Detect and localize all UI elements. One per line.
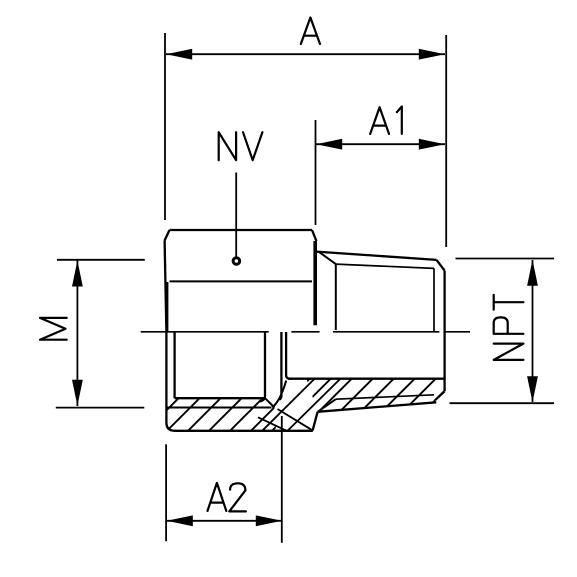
dimension A1 extension line left: [315, 120, 317, 225]
dimension A1 arrow right: [419, 139, 445, 150]
hex body left edge: [165, 241, 175, 431]
groove edge line 1: [262, 379, 314, 431]
male thread root top: [336, 264, 434, 268]
dimension NPT arrow bottom: [527, 376, 538, 402]
dimension M text: [40, 318, 67, 340]
dimension A line: [166, 53, 445, 55]
male right face: [443, 271, 445, 392]
hex body top-right chamfer: [312, 230, 316, 241]
dimension A2 extension line left: [165, 444, 167, 541]
groove edge line 2: [287, 379, 340, 431]
small bore step vertical: [286, 332, 290, 379]
dimension M arrow top: [72, 261, 83, 287]
female bore end: [259, 332, 265, 402]
centerline: [141, 331, 470, 333]
male thread crest top: [316, 252, 436, 260]
dimension A2 arrow left: [167, 515, 193, 526]
dimension NPT text: [494, 295, 524, 360]
groove edge line 3: [258, 417, 287, 431]
groove edge line 4: [278, 409, 313, 430]
dimension M extension line top: [57, 259, 145, 261]
dimension A arrow right: [419, 49, 445, 60]
NV leader dot: [233, 258, 240, 265]
hex body right face: [313, 241, 317, 325]
dimension A1 text: [370, 107, 402, 134]
hex body top-left chamfer: [165, 230, 170, 241]
dimension A1 line: [316, 143, 445, 145]
male thread vanish bottom: [318, 399, 336, 411]
dimension A2 line: [167, 520, 282, 522]
hatch male section fill: [307, 379, 444, 412]
male end chamfer top: [437, 260, 445, 271]
male end chamfer bottom: [435, 391, 445, 400]
male thread start vertical: [335, 264, 337, 330]
dimension NPT extension line bottom: [450, 402, 555, 404]
bore counterbore end vertical: [279, 332, 281, 400]
dimension NPT line: [532, 260, 534, 402]
dimension A arrow left: [166, 49, 192, 60]
male chamfer edge vertical: [433, 268, 435, 331]
dimension NPT arrow top: [527, 260, 538, 286]
female bore left edge: [173, 332, 175, 398]
NV leader line: [235, 173, 237, 257]
dimension A2 arrow right: [256, 515, 282, 526]
dimension M extension line bottom: [56, 407, 145, 409]
section step: [313, 412, 318, 431]
male thread vanish top: [320, 252, 336, 264]
hatch female section fill: [167, 399, 276, 431]
dimension A1 arrow left: [316, 139, 342, 150]
hex body top edge: [170, 229, 313, 231]
section bottom edge: [175, 430, 313, 432]
dimension A extension line left: [164, 33, 166, 220]
hex body left edge inner line: [166, 282, 168, 331]
small bore line: [288, 378, 445, 380]
male thread root bottom: [336, 395, 434, 399]
dimension NPT extension line top: [456, 258, 555, 260]
dimension M line: [76, 260, 78, 406]
dimension A2 extension line right: [281, 416, 283, 543]
NV text: [219, 132, 263, 160]
female thread major line: [166, 407, 271, 409]
dimension M arrow bottom: [72, 380, 83, 406]
female bore bottom minor line: [175, 397, 265, 399]
dimension A2 text: [208, 483, 246, 512]
transition cone edge: [272, 381, 286, 408]
male thread crest bottom: [317, 402, 436, 412]
dimension A extension line right: [445, 35, 447, 247]
hex chamfer line: [170, 280, 313, 282]
dimension A text: [301, 18, 320, 45]
female thread end chamfer: [265, 398, 275, 407]
